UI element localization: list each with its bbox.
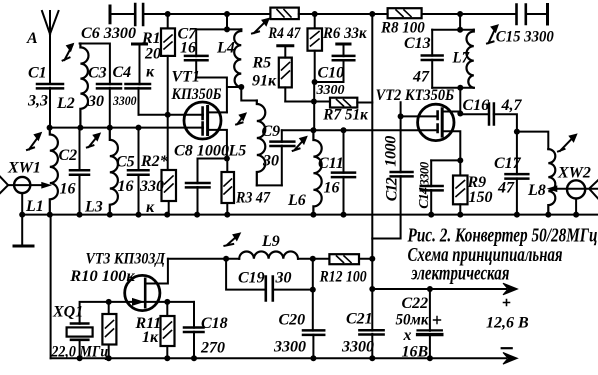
svg-text:R1: R1 bbox=[141, 30, 161, 47]
svg-text:к: к bbox=[146, 199, 155, 216]
svg-text:XW1: XW1 bbox=[7, 160, 41, 177]
wire L2-C3 top link bbox=[80, 44, 110, 85]
resistor R10 100к bbox=[69, 268, 135, 358]
wire R5/R7 bias row bbox=[285, 101, 330, 103]
svg-text:C9: C9 bbox=[262, 123, 281, 140]
wire mid ground bus bbox=[22, 214, 598, 216]
svg-text:А: А bbox=[26, 30, 38, 47]
svg-text:C14: C14 bbox=[417, 187, 432, 209]
svg-text:C3: C3 bbox=[88, 65, 107, 82]
svg-text:C18: C18 bbox=[201, 315, 228, 332]
transistor VT2 source node wire bbox=[431, 159, 460, 161]
wire central supply column bbox=[371, 14, 373, 259]
wire gate2 of VT2 long bbox=[282, 129, 438, 131]
transistor VT1 КП350Б dual-gate MOSFET bbox=[171, 69, 227, 159]
svg-text:20: 20 bbox=[144, 46, 161, 63]
svg-text:C17: C17 bbox=[494, 155, 522, 172]
capacitor C11 16 bbox=[318, 130, 355, 214]
svg-text:R4 47: R4 47 bbox=[268, 25, 302, 42]
svg-text:R8 100: R8 100 bbox=[380, 20, 425, 37]
wire VT3 drain row bbox=[168, 258, 372, 260]
svg-text:C19: C19 bbox=[238, 270, 265, 287]
wire top supply rail bbox=[110, 13, 548, 15]
svg-text:3300: 3300 bbox=[112, 93, 137, 108]
resistor R7 51к bbox=[322, 98, 372, 124]
wire bottom minus bus bbox=[51, 357, 506, 359]
svg-text:16: 16 bbox=[324, 180, 340, 197]
svg-text:R10 100к: R10 100к bbox=[69, 268, 135, 285]
svg-text:3300: 3300 bbox=[316, 83, 345, 98]
svg-text:XQ1: XQ1 bbox=[52, 304, 83, 321]
inductor L1 bbox=[25, 128, 58, 215]
svg-text:3300: 3300 bbox=[417, 161, 432, 187]
svg-text:30: 30 bbox=[87, 93, 104, 110]
resistor R4 47 trimmer bbox=[268, 8, 302, 42]
svg-text:VT1: VT1 bbox=[172, 69, 200, 86]
svg-text:91к: 91к bbox=[252, 73, 277, 90]
capacitor C18 270 bbox=[184, 302, 228, 358]
svg-text:C6 3300: C6 3300 bbox=[81, 25, 136, 42]
capacitor C13 47 bbox=[404, 30, 443, 88]
svg-text:L5: L5 bbox=[228, 143, 247, 160]
svg-text:12,6 В: 12,6 В bbox=[486, 315, 529, 332]
arrow plus supply bbox=[503, 283, 518, 295]
capacitor C16 4,7 bbox=[460, 97, 522, 132]
svg-text:3,3: 3,3 bbox=[27, 93, 48, 110]
capacitor C22 50мк 16В electrolytic bbox=[396, 289, 442, 361]
ground terminal bar left of C6 bbox=[109, 6, 112, 23]
svg-text:L4: L4 bbox=[216, 40, 235, 57]
inductor L9 bbox=[239, 233, 298, 259]
capacitor C8 1000 bbox=[174, 143, 229, 215]
wire VT3 gate row bbox=[80, 302, 127, 324]
resistor R9 150 bbox=[453, 160, 493, 214]
svg-text:к: к bbox=[146, 64, 155, 81]
capacitor C1 3,3 bbox=[27, 65, 63, 128]
svg-text:270: 270 bbox=[200, 340, 225, 357]
svg-text:C4: C4 bbox=[113, 64, 132, 81]
svg-text:30: 30 bbox=[262, 153, 279, 170]
svg-text:C21: C21 bbox=[346, 311, 373, 328]
wire left ground tie column bbox=[50, 215, 52, 359]
trimmer arrow of C15 bbox=[487, 25, 498, 44]
svg-text:1000: 1000 bbox=[382, 136, 399, 167]
svg-text:R5: R5 bbox=[252, 55, 272, 72]
wire gate2 bus of VT1 bbox=[50, 127, 203, 129]
wire VT2 drain riser bbox=[459, 88, 461, 115]
capacitor C20 3300 bbox=[273, 290, 324, 359]
capacitor C12 1000 bbox=[372, 102, 412, 238]
svg-text:C11: C11 bbox=[318, 155, 344, 172]
resistor R12 100 bbox=[319, 254, 367, 285]
svg-text:C20: C20 bbox=[279, 312, 306, 329]
label minus sign bbox=[502, 347, 512, 349]
svg-text:C22: C22 bbox=[402, 295, 429, 312]
trimmer arrow of L5 bbox=[236, 113, 246, 125]
svg-text:R7 51к: R7 51к bbox=[322, 107, 368, 124]
svg-text:VT3 КП303Д: VT3 КП303Д bbox=[86, 251, 166, 268]
wire tank2 bottom bbox=[432, 87, 474, 89]
resistor R2* 330к bbox=[139, 153, 176, 216]
svg-text:C2: C2 bbox=[59, 147, 78, 164]
inductor L4 bbox=[216, 29, 241, 87]
trimmer arrow of L9 bbox=[224, 233, 240, 246]
capacitor C21 3300 bbox=[341, 259, 384, 359]
inductor L6 bbox=[287, 130, 322, 214]
wire L5 bottom to C9 bbox=[257, 184, 282, 186]
capacitor C7 16 bbox=[178, 26, 208, 78]
wire tank1 top riser bbox=[196, 14, 241, 29]
svg-text:4,7: 4,7 bbox=[501, 97, 523, 114]
svg-text:х: х bbox=[403, 327, 412, 344]
wire plus supply rail bbox=[372, 288, 506, 290]
svg-text:47: 47 bbox=[412, 69, 430, 86]
capacitor C3 30 bbox=[87, 65, 121, 128]
svg-text:R12 100: R12 100 bbox=[319, 269, 367, 286]
svg-text:L8: L8 bbox=[527, 182, 546, 199]
capacitor C17 47 bbox=[494, 132, 528, 215]
transistor VT2 КТ350Б dual-gate MOSFET bbox=[376, 87, 461, 160]
capacitor C5 16 bbox=[116, 128, 149, 215]
label plus sign bbox=[504, 300, 510, 306]
svg-text:3300: 3300 bbox=[341, 339, 374, 356]
svg-text:C5: C5 bbox=[116, 154, 135, 171]
svg-text:L9: L9 bbox=[261, 233, 280, 250]
resistor R6 33к bbox=[308, 14, 368, 130]
inductor L5 bbox=[228, 87, 266, 185]
svg-text:L2: L2 bbox=[56, 95, 75, 112]
svg-text:16: 16 bbox=[60, 181, 76, 198]
svg-text:КП350Б: КП350Б bbox=[171, 86, 222, 103]
resistor R1 20к bbox=[141, 14, 175, 170]
capacitor C4 3300 bbox=[112, 44, 150, 115]
connector XW2 bbox=[548, 165, 598, 215]
resistor R11 1к bbox=[135, 302, 175, 358]
svg-text:330: 330 bbox=[139, 178, 164, 195]
arrow minus supply bbox=[503, 353, 518, 365]
svg-text:R3 47: R3 47 bbox=[235, 190, 271, 207]
capacitor C19 30 bbox=[226, 259, 313, 301]
svg-text:C16: C16 bbox=[463, 97, 490, 114]
trimmer arrow of R4 bbox=[252, 18, 269, 33]
resistor R5 91к bbox=[252, 46, 293, 102]
capacitor C6 3300 bbox=[81, 4, 143, 42]
resistor R3 47 bbox=[222, 159, 271, 215]
svg-text:C13: C13 bbox=[404, 35, 431, 52]
capacitor C9 30 variable bbox=[262, 123, 295, 185]
svg-text:C12: C12 bbox=[383, 177, 400, 201]
svg-text:47: 47 bbox=[497, 180, 515, 197]
svg-text:R6 33к: R6 33к bbox=[322, 25, 367, 42]
svg-text:L1: L1 bbox=[25, 198, 44, 215]
inductor L7 bbox=[452, 30, 474, 88]
svg-text:3300: 3300 bbox=[273, 339, 306, 356]
svg-text:электрическая: электрическая bbox=[411, 263, 510, 285]
wire gate1 of VT1 bbox=[139, 114, 204, 116]
svg-text:L7: L7 bbox=[452, 50, 470, 67]
trimmer arrow of L3 bbox=[87, 133, 100, 147]
capacitor C2 16 bbox=[59, 128, 90, 215]
wire tank1 bottom to drain bbox=[196, 78, 241, 113]
svg-text:16: 16 bbox=[180, 40, 196, 57]
resistor R8 100 bbox=[380, 8, 425, 36]
svg-text:50мк: 50мк bbox=[396, 312, 430, 329]
wire gate1 of VT2 bbox=[401, 115, 438, 117]
wire C16 node to L8 bbox=[517, 132, 548, 150]
trimmer arrow of L1 bbox=[27, 133, 41, 151]
svg-text:30: 30 bbox=[275, 270, 292, 287]
inductor L8 bbox=[527, 149, 555, 215]
ground bar under XW1 bbox=[14, 245, 33, 248]
trimmer arrow of L2 bbox=[63, 44, 74, 61]
trimmer arrow of C9/L6 bbox=[293, 136, 307, 150]
svg-text:C8 1000: C8 1000 bbox=[174, 143, 229, 160]
connector XW1 bbox=[0, 160, 50, 247]
svg-text:C15 3300: C15 3300 bbox=[496, 29, 554, 46]
capacitor C10 3300 bbox=[315, 44, 355, 98]
svg-text:L3: L3 bbox=[84, 199, 103, 216]
svg-text:1к: 1к bbox=[142, 329, 159, 346]
svg-text:16: 16 bbox=[118, 178, 134, 195]
transistor VT3 КП303Д JFET bbox=[86, 251, 195, 311]
ground terminal bar right of C15 bbox=[546, 5, 549, 25]
crystal XQ1 22,0 МГц bbox=[51, 304, 109, 361]
svg-text:L6: L6 bbox=[287, 192, 306, 209]
antenna A bbox=[26, 11, 59, 84]
capacitor C15 3300 variable bbox=[496, 5, 554, 46]
svg-text:VT2 КТ350Б: VT2 КТ350Б bbox=[376, 87, 455, 104]
trimmer arrow of L8 bbox=[558, 134, 577, 151]
inductor L2 bbox=[56, 44, 88, 128]
svg-text:C10: C10 bbox=[318, 65, 345, 82]
capacitor C14 3300 bbox=[417, 160, 443, 214]
svg-text:C1: C1 bbox=[28, 65, 47, 82]
inductor L3 bbox=[84, 128, 118, 216]
svg-text:150: 150 bbox=[469, 189, 493, 206]
svg-text:R2*: R2* bbox=[140, 153, 169, 170]
wire tank2 top riser bbox=[432, 14, 474, 30]
svg-text:XW2: XW2 bbox=[557, 165, 591, 182]
